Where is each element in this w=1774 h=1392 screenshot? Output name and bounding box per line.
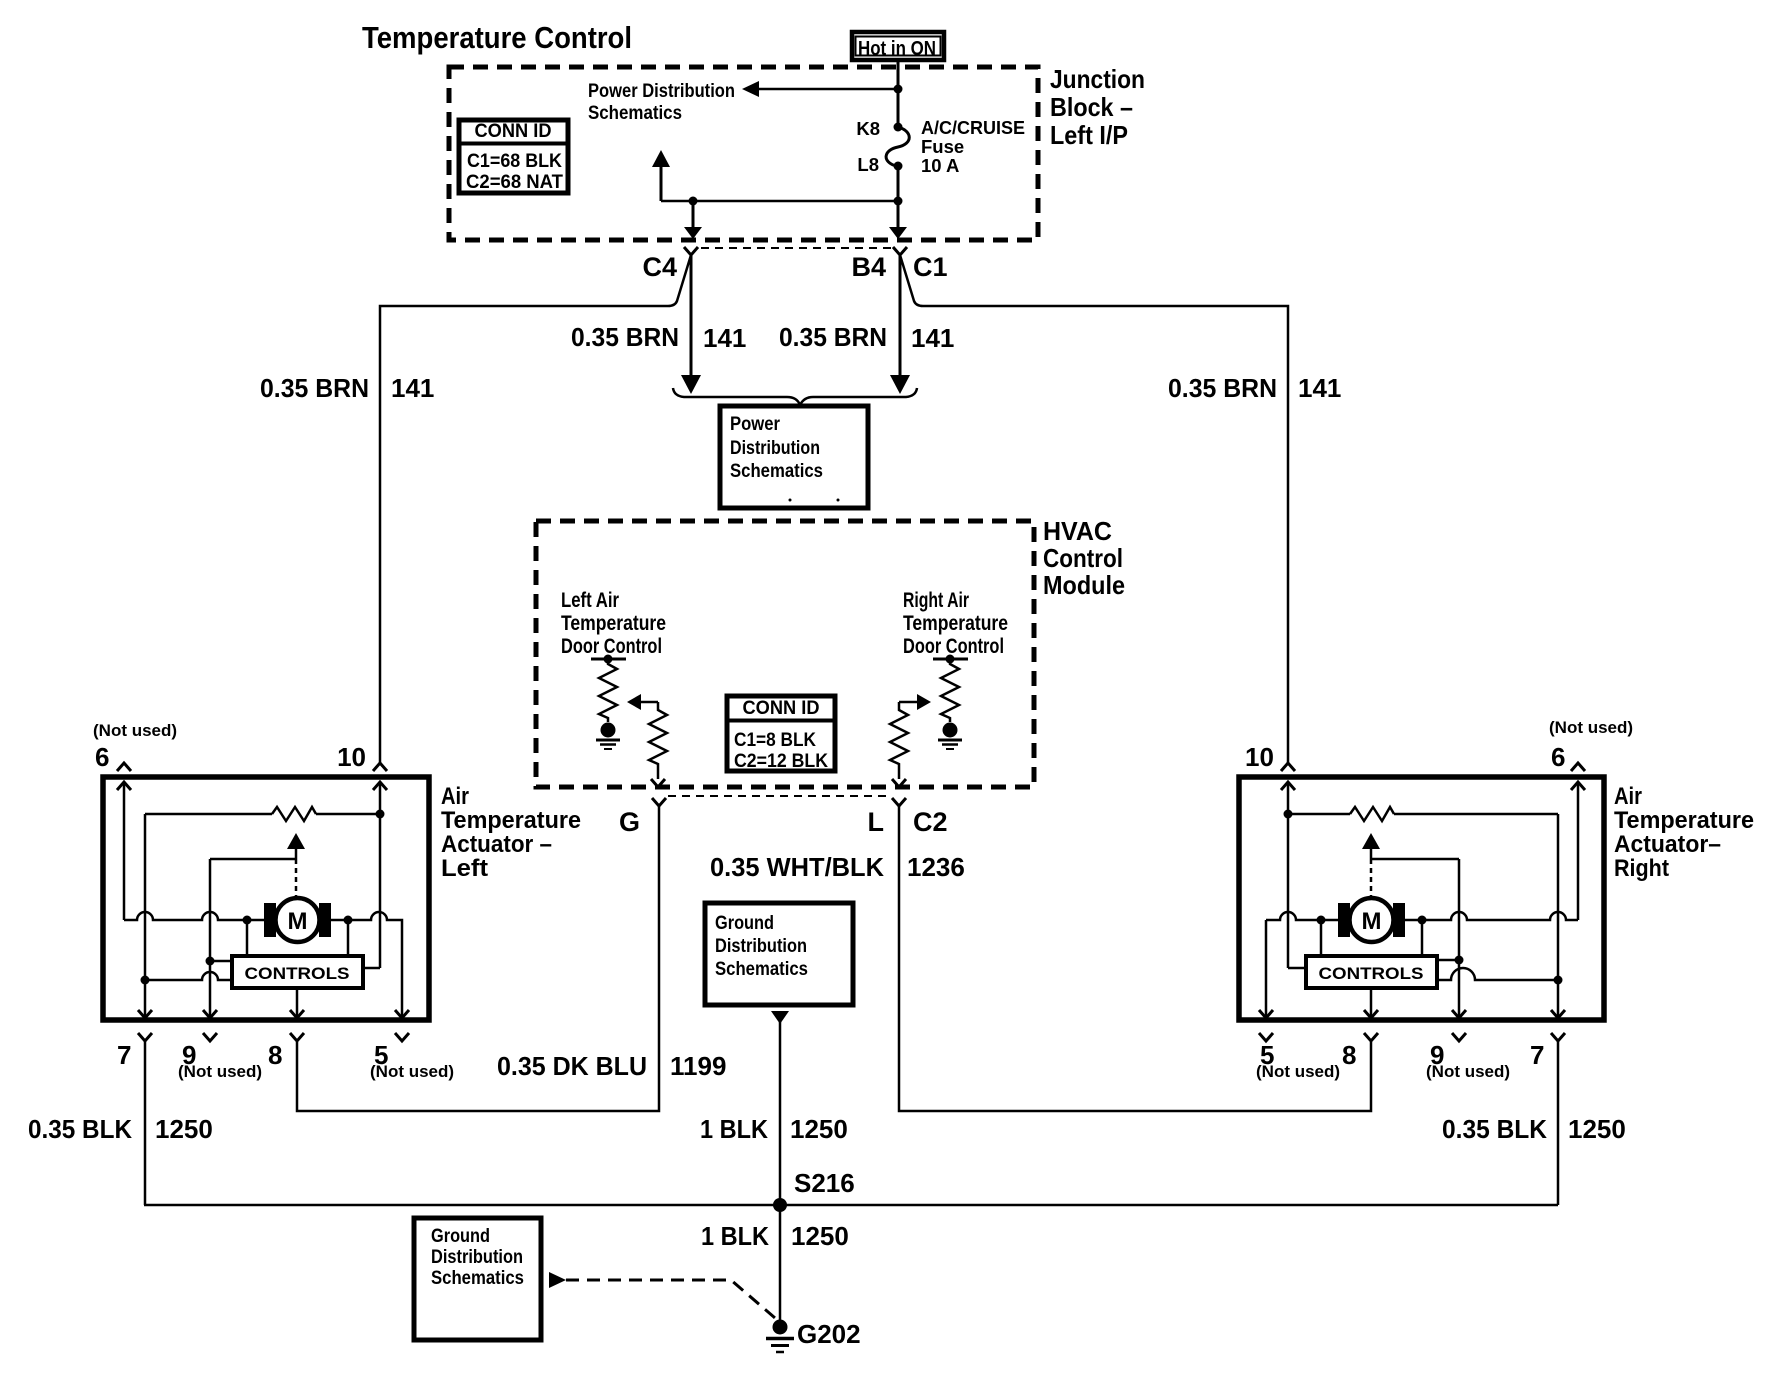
svg-text:Hot in ON: Hot in ON (858, 38, 936, 60)
svg-text:S216: S216 (794, 1168, 855, 1198)
right bus wire right of motor (1405, 912, 1578, 920)
wire L to right actuator pin 8 (0.35 WHT/BLK 1236) (899, 806, 1371, 1111)
HVAC control module dashed box (536, 521, 1034, 787)
wire C4 to left run 0.35 BRN 141 (380, 255, 691, 763)
svg-text:Module: Module (1043, 570, 1125, 600)
left wiper wire to pin 9 line (210, 858, 296, 861)
CONN ID table (HVAC) (727, 696, 835, 772)
svg-text:10: 10 (337, 742, 366, 772)
arrow to power distribution schematics (742, 81, 759, 97)
Hot in ON power tag (852, 32, 944, 60)
svg-text:8: 8 (268, 1040, 282, 1070)
arrow from ground box to splice wire (771, 1011, 789, 1024)
svg-text:Fuse: Fuse (921, 136, 964, 157)
svg-text:0.35 BRN: 0.35 BRN (260, 373, 369, 403)
svg-text:Ground: Ground (715, 913, 774, 934)
svg-text:Power: Power (730, 414, 781, 435)
right internal arrow from pin 10 (1281, 782, 1295, 790)
svg-text:C2=12 BLK: C2=12 BLK (734, 751, 828, 772)
svg-text:Temperature: Temperature (903, 612, 1008, 635)
right motor terminal drops to controls (1320, 920, 1323, 956)
node pin7 line branch to controls (141, 976, 150, 985)
svg-text:1250: 1250 (791, 1221, 849, 1251)
right door control potentiometer top bar (933, 658, 968, 661)
node pin9 line to controls (right) (1455, 956, 1464, 965)
node motor left terminal (243, 916, 252, 925)
wire C1 to right run 0.35 BRN 141 (900, 255, 1288, 763)
svg-text:1236: 1236 (907, 852, 965, 882)
svg-text:7: 7 (117, 1040, 131, 1070)
right door control potentiometer resistor (941, 659, 959, 722)
left internal arrow from pin 10 (373, 782, 387, 790)
right controls output wire to pin 8 (1370, 988, 1373, 1018)
svg-text:Block –: Block – (1050, 92, 1133, 122)
svg-text:Door Control: Door Control (561, 635, 662, 658)
left pot wiper arrow (627, 694, 641, 710)
wire with arrow down to C4 (692, 201, 695, 229)
power distribution schematics reference box (720, 406, 868, 508)
svg-text:C1=68 BLK: C1=68 BLK (467, 151, 562, 172)
svg-text:Schematics: Schematics (715, 959, 808, 980)
left bottom pin connectors (138, 1033, 152, 1041)
svg-text:(Not used): (Not used) (1256, 1062, 1340, 1081)
svg-text:Temperature: Temperature (1614, 807, 1754, 834)
svg-text:0.35 BRN: 0.35 BRN (1168, 373, 1277, 403)
svg-text:1250: 1250 (1568, 1114, 1626, 1144)
left actuator label (441, 783, 581, 882)
svg-text:Left I/P: Left I/P (1050, 120, 1128, 150)
svg-text:Power Distribution: Power Distribution (588, 81, 735, 102)
svg-text:Schematics: Schematics (588, 103, 682, 124)
svg-text:C4: C4 (642, 252, 677, 282)
right pin 10 connector (1281, 763, 1295, 771)
left pot ground symbol (596, 739, 620, 742)
svg-text:K8: K8 (856, 118, 880, 139)
left controls output wire to pin 8 (296, 988, 299, 1018)
svg-text:B4: B4 (851, 252, 886, 282)
left actuator box (103, 777, 429, 1020)
svg-text:CONN ID: CONN ID (743, 698, 820, 719)
svg-text:L: L (868, 807, 885, 837)
right air temperature door control label (903, 589, 1008, 658)
left feedback resistor wire (145, 813, 272, 816)
svg-text:M: M (1362, 908, 1382, 935)
svg-text:L8: L8 (857, 154, 879, 175)
svg-text:Temperature: Temperature (561, 612, 666, 635)
svg-text:0.35 BLK: 0.35 BLK (1442, 1114, 1547, 1144)
right wiper series resistor to pin L (890, 702, 908, 779)
left actuator bus wire with hop-overs (124, 912, 264, 920)
svg-text:1 BLK: 1 BLK (700, 1114, 768, 1144)
svg-text:(Not used): (Not used) (1549, 718, 1633, 737)
svg-text:Right: Right (1614, 855, 1669, 882)
wire G to left actuator pin 8 (0.35 DK BLU 1199) (297, 806, 659, 1111)
right pin 7 wire to ground bus (1557, 1041, 1560, 1205)
left motor mechanical link (dashed) (295, 859, 298, 896)
svg-text:1 BLK: 1 BLK (701, 1221, 769, 1251)
node: branch to power distribution schematics (894, 85, 903, 94)
brace joining C4/B4 drops (673, 388, 917, 405)
left bus wire right of motor (331, 912, 402, 1018)
left wiper series resistor to pin G (649, 702, 667, 779)
svg-text:Schematics: Schematics (730, 461, 823, 482)
right feedback resistor (1350, 807, 1394, 821)
svg-text:141: 141 (1298, 373, 1341, 403)
connector pin L / C2 (892, 798, 906, 806)
left pot ground splice dot (601, 723, 616, 738)
HVAC connector interface dashed line (668, 795, 890, 797)
svg-text:Actuator –: Actuator – (441, 831, 552, 858)
svg-text:Schematics: Schematics (431, 1268, 524, 1289)
fuse terminal K8 (894, 123, 903, 132)
left door control potentiometer resistor (599, 659, 617, 722)
arrow to pin G (651, 779, 665, 787)
right actuator label (1614, 783, 1754, 882)
svg-text:A/C/CRUISE: A/C/CRUISE (921, 117, 1025, 138)
ground distribution schematics reference box (center) (705, 903, 853, 1005)
svg-text:8: 8 (1342, 1040, 1356, 1070)
svg-text:1250: 1250 (790, 1114, 848, 1144)
svg-text:CONN ID: CONN ID (475, 121, 552, 142)
arrow from ground reference box (549, 1272, 566, 1288)
internal up arrow (660, 166, 663, 201)
svg-text:1199: 1199 (670, 1051, 726, 1081)
node pin9 line to controls (206, 957, 215, 966)
node pin7 line branch to controls (right) (1554, 976, 1563, 985)
wire with arrow down to B4 (894, 197, 903, 206)
left wire resistor end down to pin 7 (144, 814, 147, 1018)
right CONTROLS box (1306, 956, 1437, 988)
right bottom internal arrows (1259, 1010, 1273, 1018)
svg-text:Air: Air (1614, 783, 1642, 810)
svg-text:C2: C2 (913, 807, 948, 837)
node resistor/pin10 (376, 810, 385, 819)
wire to power distribution schematics (757, 88, 898, 91)
left motor M (264, 898, 331, 942)
node motor left terminal (right actuator) (1317, 916, 1326, 925)
left CONTROLS box (232, 956, 363, 988)
wire from Hot in ON into block (897, 59, 900, 127)
left bottom internal arrows (138, 1010, 152, 1018)
right motor mechanical link (dashed) (1370, 859, 1373, 896)
right wiper arrow at feedback resistor (1362, 833, 1380, 849)
svg-text:Distribution: Distribution (730, 438, 820, 459)
left pin 6 connector (117, 763, 131, 771)
svg-text:Junction: Junction (1050, 64, 1145, 94)
left pin 10 connector (373, 763, 387, 771)
svg-text:Ground: Ground (431, 1226, 490, 1247)
fuse A/C/CRUISE 10 A (886, 127, 909, 166)
connector interface dashed line C4-B4 (701, 247, 892, 249)
left motor terminal drops to controls (246, 920, 249, 956)
svg-text:6: 6 (95, 742, 109, 772)
CONN ID table (junction block) (459, 120, 568, 193)
left air temperature door control label (561, 589, 666, 658)
ground distribution schematics reference box (lower left) (414, 1218, 541, 1340)
svg-text:0.35 DK BLU: 0.35 DK BLU (497, 1051, 647, 1081)
svg-text:C2=68 NAT: C2=68 NAT (466, 172, 563, 193)
right pot wiper arrow (917, 694, 931, 710)
svg-text:(Not used): (Not used) (370, 1062, 454, 1081)
svg-text:(Not used): (Not used) (178, 1062, 262, 1081)
right bus left end to pin 5 (1265, 920, 1268, 1018)
right pin 6 connector (1571, 763, 1585, 771)
junction block dashed box (449, 67, 1038, 240)
right pot ground symbol (938, 739, 962, 742)
svg-text:0.35 BRN: 0.35 BRN (571, 322, 679, 352)
wire 1 BLK 1250 to S216 (779, 1022, 782, 1205)
svg-text:141: 141 (391, 373, 434, 403)
connector B4 / C1 (893, 247, 907, 255)
svg-text:0.35 BRN: 0.35 BRN (779, 322, 887, 352)
svg-text:G202: G202 (797, 1319, 861, 1349)
svg-text:10 A: 10 A (921, 155, 959, 176)
right actuator box (1239, 777, 1604, 1020)
wire B4 to brace with arrow (899, 255, 902, 377)
right wire resistor end down to pin 7 (1557, 814, 1560, 1018)
svg-text:Distribution: Distribution (715, 936, 807, 957)
node motor right terminal (344, 916, 353, 925)
left internal arrow to pin 6 (117, 782, 131, 790)
left pin10 wire into controls (363, 967, 380, 970)
svg-text:Left Air: Left Air (561, 589, 619, 612)
fuse terminal L8 (894, 162, 903, 171)
right actuator bus wire with hop-overs (1266, 912, 1338, 920)
left door control potentiometer top bar (591, 658, 626, 661)
svg-text:6: 6 (1551, 742, 1565, 772)
internal bus wire in junction block (661, 200, 898, 203)
node motor right terminal (right actuator) (1418, 916, 1427, 925)
junction block label (1050, 64, 1145, 150)
dashed reference wire to G202 (566, 1280, 775, 1318)
right bottom pin connectors (1259, 1033, 1273, 1041)
svg-text:141: 141 (911, 323, 954, 353)
svg-text:C1=8 BLK: C1=8 BLK (734, 730, 816, 751)
left pin 7 wire to ground bus (144, 1041, 147, 1205)
right feedback resistor wire (1284, 810, 1293, 819)
svg-text:Actuator–: Actuator– (1614, 831, 1721, 858)
wire from L8 to internal bus (897, 166, 900, 201)
svg-text:141: 141 (703, 323, 746, 353)
svg-text:10: 10 (1245, 742, 1274, 772)
svg-text:1250: 1250 (155, 1114, 213, 1144)
right wiper wire to pin 9 line (1371, 858, 1459, 861)
svg-text:M: M (288, 908, 308, 935)
svg-text:HVAC: HVAC (1043, 516, 1112, 546)
svg-text:Right Air: Right Air (903, 589, 969, 612)
right internal arrow to pin 6 (1571, 782, 1585, 790)
svg-text:7: 7 (1530, 1040, 1544, 1070)
svg-text:Temperature Control: Temperature Control (362, 20, 632, 55)
svg-text:Left: Left (441, 855, 488, 882)
svg-text:(Not used): (Not used) (1426, 1062, 1510, 1081)
svg-text:C1: C1 (913, 252, 948, 282)
HVAC control module label (1043, 516, 1125, 600)
svg-text:(Not used): (Not used) (93, 721, 177, 740)
arrow to pin L (892, 779, 906, 787)
connector pin G (652, 798, 666, 806)
svg-text:Door Control: Door Control (903, 635, 1004, 658)
right motor M (1338, 898, 1405, 942)
svg-text:Control: Control (1043, 543, 1123, 573)
node above C4 (689, 197, 698, 206)
right pin10 wire into controls (1288, 967, 1306, 970)
svg-text:CONTROLS: CONTROLS (245, 964, 350, 983)
svg-text:Temperature: Temperature (441, 807, 581, 834)
left wiper arrow at feedback resistor (287, 833, 305, 849)
svg-text:G: G (619, 807, 640, 837)
svg-text:0.35 BLK: 0.35 BLK (28, 1114, 132, 1144)
svg-text:Air: Air (441, 783, 469, 810)
ground bus wire (144, 1204, 1558, 1207)
wire S216 to G202 (1 BLK 1250) (779, 1205, 782, 1321)
right pot ground splice dot (943, 723, 958, 738)
ground G202 (766, 1319, 861, 1352)
svg-text:CONTROLS: CONTROLS (1319, 964, 1424, 983)
svg-text:Distribution: Distribution (431, 1247, 523, 1268)
wire C4 to brace with arrow (690, 255, 693, 377)
left feedback resistor (272, 807, 316, 821)
svg-text:0.35 WHT/BLK: 0.35 WHT/BLK (710, 852, 884, 882)
connector C4 (684, 247, 698, 255)
